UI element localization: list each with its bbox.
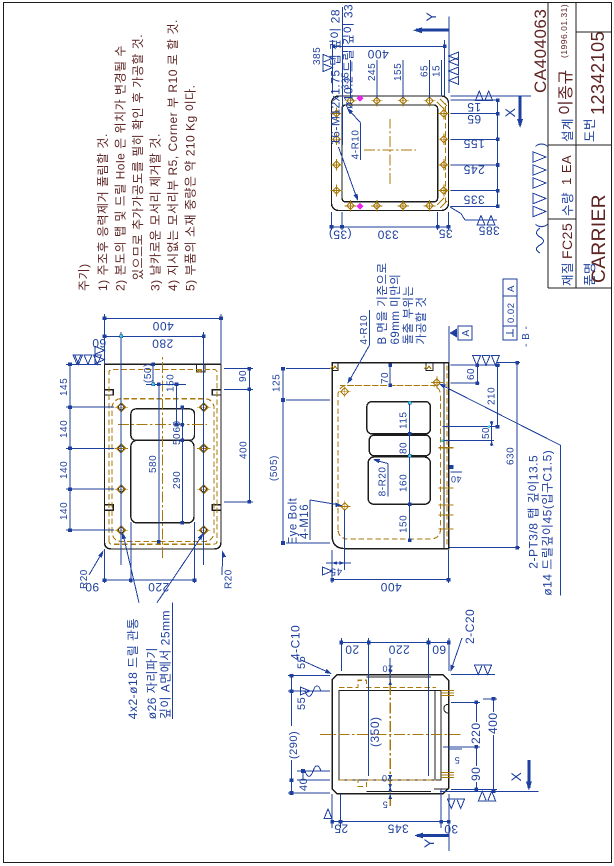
svg-text:15: 15 <box>432 65 443 77</box>
svg-text:깊이 A면에서 25mm: 깊이 A면에서 25mm <box>159 610 173 719</box>
view E vertical dim 385/400 <box>331 40 333 93</box>
svg-text:50: 50 <box>481 427 492 439</box>
view G dim 60 <box>476 365 478 383</box>
svg-text:155: 155 <box>393 63 404 81</box>
view H inner square <box>339 690 441 780</box>
view H right chain 20/220/60 <box>340 638 342 671</box>
svg-text:335: 335 <box>463 193 485 207</box>
view G pockets <box>367 402 431 434</box>
view H extension verticals <box>440 790 539 792</box>
view F outer rect <box>105 364 222 549</box>
svg-text:(1996.01.31): (1996.01.31) <box>559 4 569 58</box>
svg-text:40: 40 <box>450 474 461 484</box>
svg-text:): ) <box>533 142 548 147</box>
view E inner dashed bottom <box>445 103 447 203</box>
svg-text:16-M12x1.75 탭 깊이 28: 16-M12x1.75 탭 깊이 28 <box>329 9 343 145</box>
svg-text:400: 400 <box>152 319 174 333</box>
svg-text:60: 60 <box>432 643 446 657</box>
svg-text:630: 630 <box>506 447 517 465</box>
svg-text:290: 290 <box>172 471 183 489</box>
view H outline <box>332 675 449 794</box>
svg-text:330: 330 <box>377 228 399 242</box>
view E bottom ordinate dims <box>451 205 498 207</box>
view G dim 50 <box>491 421 493 446</box>
view E gate marks corners <box>437 198 447 208</box>
view H PT hole arc <box>444 704 448 713</box>
svg-text:도번: 도번 <box>583 118 597 142</box>
view F dim 580 <box>158 384 160 541</box>
view F finish marks top-right <box>95 346 105 363</box>
svg-text:(350): (350) <box>368 716 382 747</box>
svg-text:20: 20 <box>381 773 392 783</box>
svg-text:Y: Y <box>421 838 437 848</box>
svg-text:CARRIER: CARRIER <box>589 194 610 283</box>
view G ext lines bottom <box>451 364 501 366</box>
view E 16 x M12 holes <box>347 202 354 209</box>
svg-text:145: 145 <box>59 378 70 396</box>
Y axis view E <box>416 29 449 32</box>
svg-text:8-R20: 8-R20 <box>378 467 389 497</box>
svg-text:280: 280 <box>152 337 174 351</box>
svg-text:385: 385 <box>312 47 323 65</box>
svg-text:(505): (505) <box>269 455 280 481</box>
svg-text:210: 210 <box>487 387 498 405</box>
svg-text:(290): (290) <box>288 731 300 759</box>
svg-text:Y: Y <box>423 12 439 22</box>
svg-text:A: A <box>461 329 472 336</box>
svg-text:60: 60 <box>92 336 106 350</box>
view H small dims 5/20/20 <box>388 794 392 799</box>
view G chain 115/80/160/150 <box>409 403 411 540</box>
view F slot 1 <box>131 409 195 441</box>
view F slot 2 <box>131 440 194 523</box>
view G outline <box>332 363 449 549</box>
view F hidden dashed outer <box>109 370 217 545</box>
svg-text:수량: 수량 <box>561 192 575 216</box>
magenta reference holes <box>357 95 364 102</box>
X axis view E <box>451 95 532 97</box>
svg-text:580: 580 <box>148 455 159 473</box>
svg-text:60: 60 <box>172 420 183 432</box>
svg-text:50: 50 <box>172 433 183 445</box>
svg-text:2) 본도의 탭 및 드릴 Hole 은 위치가 변경될 수: 2) 본도의 탭 및 드릴 Hole 은 위치가 변경될 수 <box>114 45 128 291</box>
svg-text:35: 35 <box>438 227 452 241</box>
svg-text:160: 160 <box>399 474 410 492</box>
X axis view H <box>527 760 530 788</box>
view H bottom double lines <box>434 690 436 780</box>
view G bottom double lines <box>443 363 445 549</box>
view F dim 280/60 right <box>120 332 122 565</box>
svg-text:4) 지시없는 모서리부 R5, Corner 부 R10: 4) 지시없는 모서리부 R5, Corner 부 R10 로 할 것. <box>166 19 180 291</box>
svg-text:4x2-ø18 드릴 관통: 4x2-ø18 드릴 관통 <box>126 618 140 719</box>
view E chain dim 35/330/35 <box>331 212 333 230</box>
svg-text:ø14 드릴깊이45(입구C1.5): ø14 드릴깊이45(입구C1.5) <box>541 450 555 596</box>
view F hidden dashed pocket <box>112 399 214 542</box>
view G dim 45 left <box>331 550 333 570</box>
view F chain 90/220 left <box>104 549 106 583</box>
view H left chain 25/345/30 <box>331 794 333 828</box>
view H dim 5 bottom <box>448 748 462 750</box>
svg-text:가공할 것: 가공할 것 <box>415 296 428 344</box>
view F chain 145/140x3 <box>66 529 114 531</box>
svg-text:R20: R20 <box>224 569 235 589</box>
svg-text:12342105: 12342105 <box>588 31 608 115</box>
view H centerlines <box>389 663 391 806</box>
svg-text:4-M16: 4-M16 <box>299 504 311 539</box>
view F dim 150 <box>176 384 178 424</box>
cyan accent ticks <box>409 402 411 404</box>
view G dims 125/(505) <box>286 368 330 370</box>
svg-text:400: 400 <box>380 580 402 594</box>
svg-text:20: 20 <box>382 664 393 674</box>
view F dim (50) <box>152 364 154 384</box>
svg-text:345: 345 <box>387 822 409 836</box>
svg-text:245: 245 <box>463 163 485 177</box>
svg-text:ø10.2 드릴 깊이 33: ø10.2 드릴 깊이 33 <box>342 4 356 109</box>
svg-text:40: 40 <box>298 778 310 791</box>
svg-text:A: A <box>506 285 517 292</box>
svg-text:5: 5 <box>454 755 460 765</box>
general roughness note <box>537 228 544 253</box>
svg-text:90: 90 <box>469 767 483 781</box>
svg-text:220: 220 <box>148 580 170 594</box>
svg-text:90: 90 <box>238 370 249 382</box>
view G right edge notches <box>332 363 338 371</box>
view E hole ordinate leaders right <box>350 60 352 98</box>
svg-text:X: X <box>502 107 518 117</box>
svg-text:385: 385 <box>478 224 500 238</box>
svg-text:1) 주조후 응력제거 풀림할 것.: 1) 주조후 응력제거 풀림할 것. <box>96 133 110 291</box>
svg-text:140: 140 <box>59 502 70 520</box>
svg-text:4-C10: 4-C10 <box>289 625 303 660</box>
view E centerline cross <box>389 119 391 184</box>
svg-text:140: 140 <box>59 420 70 438</box>
view F dim 400 right <box>104 314 106 364</box>
svg-text:이종규: 이종규 <box>557 69 575 115</box>
svg-text:5) 부품의 소재 중량은 약 210 Kg 이다.: 5) 부품의 소재 중량은 약 210 Kg 이다. <box>183 85 198 291</box>
svg-text:(: ( <box>533 223 548 228</box>
svg-text:0.02: 0.02 <box>506 303 517 324</box>
svg-text:20: 20 <box>345 643 359 657</box>
svg-text:(35): (35) <box>328 228 351 242</box>
svg-text:150: 150 <box>399 515 410 533</box>
svg-text:1 EA: 1 EA <box>559 155 574 185</box>
tolerance box perpendicular 0.02 A <box>503 279 517 340</box>
view E inner square <box>342 105 438 202</box>
view F edge tabs <box>105 505 114 510</box>
svg-text:400: 400 <box>367 47 389 61</box>
svg-text:B 면을 기준으로: B 면을 기준으로 <box>376 262 389 344</box>
svg-text:220: 220 <box>469 722 483 744</box>
svg-text:30: 30 <box>444 822 458 836</box>
view F bolt holes 8x <box>119 528 124 533</box>
view F dims 290/50/60 <box>181 407 183 523</box>
view H bottom tap tick marks <box>441 695 454 697</box>
svg-text:있으므로 추가가공도를 필히 확인 후 가공할 것.: 있으므로 추가가공도를 필히 확인 후 가공할 것. <box>131 34 145 280</box>
view G bottom tap ticks <box>439 528 454 530</box>
svg-text:R20: R20 <box>79 569 90 589</box>
Y axis view H <box>448 821 450 851</box>
svg-text:- B -: - B - <box>521 326 532 347</box>
svg-text:60: 60 <box>466 368 477 380</box>
svg-text:설계: 설계 <box>561 118 575 142</box>
svg-text:재질: 재질 <box>561 262 575 286</box>
svg-text:돌출 부위는: 돌출 부위는 <box>402 285 415 344</box>
view E outer square <box>332 96 449 211</box>
svg-text:Eye Bolt: Eye Bolt <box>288 497 300 544</box>
svg-text:ø26 자리파기: ø26 자리파기 <box>145 647 159 719</box>
svg-text:3) 날카로운 모서리 제거할 것.: 3) 날카로운 모서리 제거할 것. <box>149 133 163 291</box>
view G dim 400 left <box>331 550 333 583</box>
datum A flag <box>448 326 450 363</box>
svg-text:X: X <box>508 772 524 782</box>
view G dim 40 small <box>451 471 463 473</box>
svg-text:15: 15 <box>467 100 481 114</box>
view G eye bolt taps <box>341 388 349 396</box>
svg-text:(50): (50) <box>143 363 154 383</box>
svg-text:125: 125 <box>272 374 283 392</box>
svg-text:4-R10: 4-R10 <box>359 315 370 345</box>
svg-text:400: 400 <box>486 712 500 734</box>
svg-text:70: 70 <box>380 372 391 384</box>
view E 385 corner flag <box>450 207 465 220</box>
view G right dashed verticals <box>340 384 438 386</box>
svg-text:245: 245 <box>367 63 378 81</box>
svg-text:80: 80 <box>399 442 410 454</box>
svg-text:55: 55 <box>296 697 308 710</box>
svg-text:115: 115 <box>399 412 410 429</box>
svg-text:25: 25 <box>334 822 348 836</box>
view H step lines <box>367 676 431 678</box>
svg-text:2-C20: 2-C20 <box>463 609 477 644</box>
view F dim 150t leader lines <box>146 383 186 385</box>
view G dim 70 <box>389 365 391 385</box>
svg-text:220: 220 <box>388 643 410 657</box>
svg-text:CA404063: CA404063 <box>531 9 550 93</box>
view G dim 630 <box>516 363 518 548</box>
svg-text:2-PT3/8 탭 깊이13.5: 2-PT3/8 탭 깊이13.5 <box>527 455 541 569</box>
svg-text:155: 155 <box>463 137 485 151</box>
svg-text:65: 65 <box>420 65 431 77</box>
svg-text:150: 150 <box>166 374 177 392</box>
view G dim 210 <box>497 365 499 426</box>
view F centerlines <box>162 355 164 558</box>
svg-text:주기): 주기) <box>77 263 91 291</box>
view G hidden dashed boundary <box>338 385 440 539</box>
view H top dims 55/(290)/55/40 <box>288 792 330 794</box>
view H hidden dashed steps <box>339 680 436 687</box>
svg-text:69mm 미만의: 69mm 미만의 <box>389 274 402 345</box>
svg-text:FC25: FC25 <box>559 223 575 259</box>
svg-text:140: 140 <box>59 461 70 479</box>
view F chain 90/400 bottom <box>224 368 253 370</box>
svg-text:400: 400 <box>239 441 250 459</box>
svg-text:5: 5 <box>382 800 388 810</box>
view F right edge notch <box>197 364 205 372</box>
title block table <box>547 3 549 289</box>
view H bottom dims 90/220/400 <box>451 789 497 791</box>
